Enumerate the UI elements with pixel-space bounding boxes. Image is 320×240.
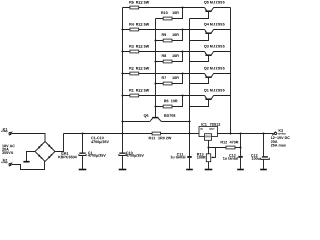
wire rail IC1 out to K3 <box>218 133 274 135</box>
transistor Q2 <box>190 67 231 84</box>
resistor R10 <box>156 6 184 19</box>
transformer label <box>2 145 15 154</box>
trimmer R13 <box>197 148 215 162</box>
transistor Q1 <box>190 89 231 107</box>
ground R13 <box>205 162 213 170</box>
bridge rectifier GR1 <box>35 142 77 162</box>
capacitor C11 <box>171 132 193 169</box>
wire left raw bus <box>122 8 124 134</box>
capacitor C12 <box>223 132 244 169</box>
transistor Q6 <box>144 114 176 121</box>
row 4: emitter wire <box>121 72 204 74</box>
resistor R5 <box>129 1 149 9</box>
wire bridge plus to rail <box>55 134 64 152</box>
output label <box>271 136 290 146</box>
junction collector bus to rail <box>229 132 231 134</box>
wire IC1 gnd down <box>207 140 209 154</box>
resistor R6 <box>154 94 183 107</box>
resistor R4 <box>129 23 149 31</box>
capacitors label C1-C10 <box>91 137 109 144</box>
resistor R2 <box>129 67 149 75</box>
capacitor C10 <box>119 132 144 169</box>
resistor R1 <box>129 89 149 97</box>
resistor R7 <box>154 72 183 84</box>
transistor Q3 <box>190 45 231 62</box>
terminal K2 <box>1 159 12 166</box>
resistor R11 <box>149 132 172 139</box>
wire K1 to bridge <box>12 134 45 142</box>
row 2: emitter wire <box>121 28 204 30</box>
terminal K1 <box>1 128 12 135</box>
IC1 regulator 78S12 <box>199 123 220 140</box>
transistor Q5 <box>190 1 231 19</box>
row 5: emitter wire <box>121 94 204 96</box>
resistor R3 <box>129 45 149 53</box>
capacitor C1 <box>79 132 106 169</box>
wire K2 to bridge <box>12 162 45 170</box>
wire collector bus <box>230 8 232 134</box>
wire main rail left <box>64 133 153 135</box>
resistor R9 <box>154 28 183 41</box>
capacitor C13 <box>251 132 269 169</box>
row 1: emitter wire <box>123 7 205 9</box>
wire Q6 emitter to raw bus <box>121 120 149 122</box>
wire Q6 collector to base chain <box>161 120 190 122</box>
row 3: emitter wire <box>121 50 204 52</box>
resistor R12 <box>209 141 242 149</box>
ground bridge minus <box>23 152 35 162</box>
wire main rail to IC1 <box>161 133 200 135</box>
resistor R8 <box>154 50 183 62</box>
transistor Q4 <box>190 23 231 41</box>
wire base-resistor bus <box>155 19 157 117</box>
wire base chain bus <box>189 19 191 134</box>
terminal K3 <box>272 129 285 135</box>
